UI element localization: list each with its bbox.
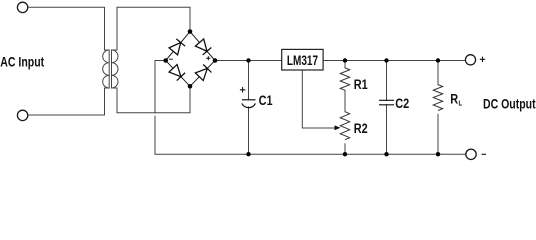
svg-text:LM317: LM317	[287, 52, 318, 68]
svg-text:R1: R1	[354, 77, 368, 93]
svg-text:C2: C2	[395, 96, 409, 112]
svg-text:R2: R2	[354, 121, 368, 137]
svg-text:AC Input: AC Input	[0, 54, 44, 70]
svg-text:C1: C1	[259, 93, 273, 109]
svg-text:DC Output: DC Output	[483, 96, 536, 112]
svg-text:R: R	[450, 91, 458, 107]
svg-text:L: L	[459, 100, 463, 108]
